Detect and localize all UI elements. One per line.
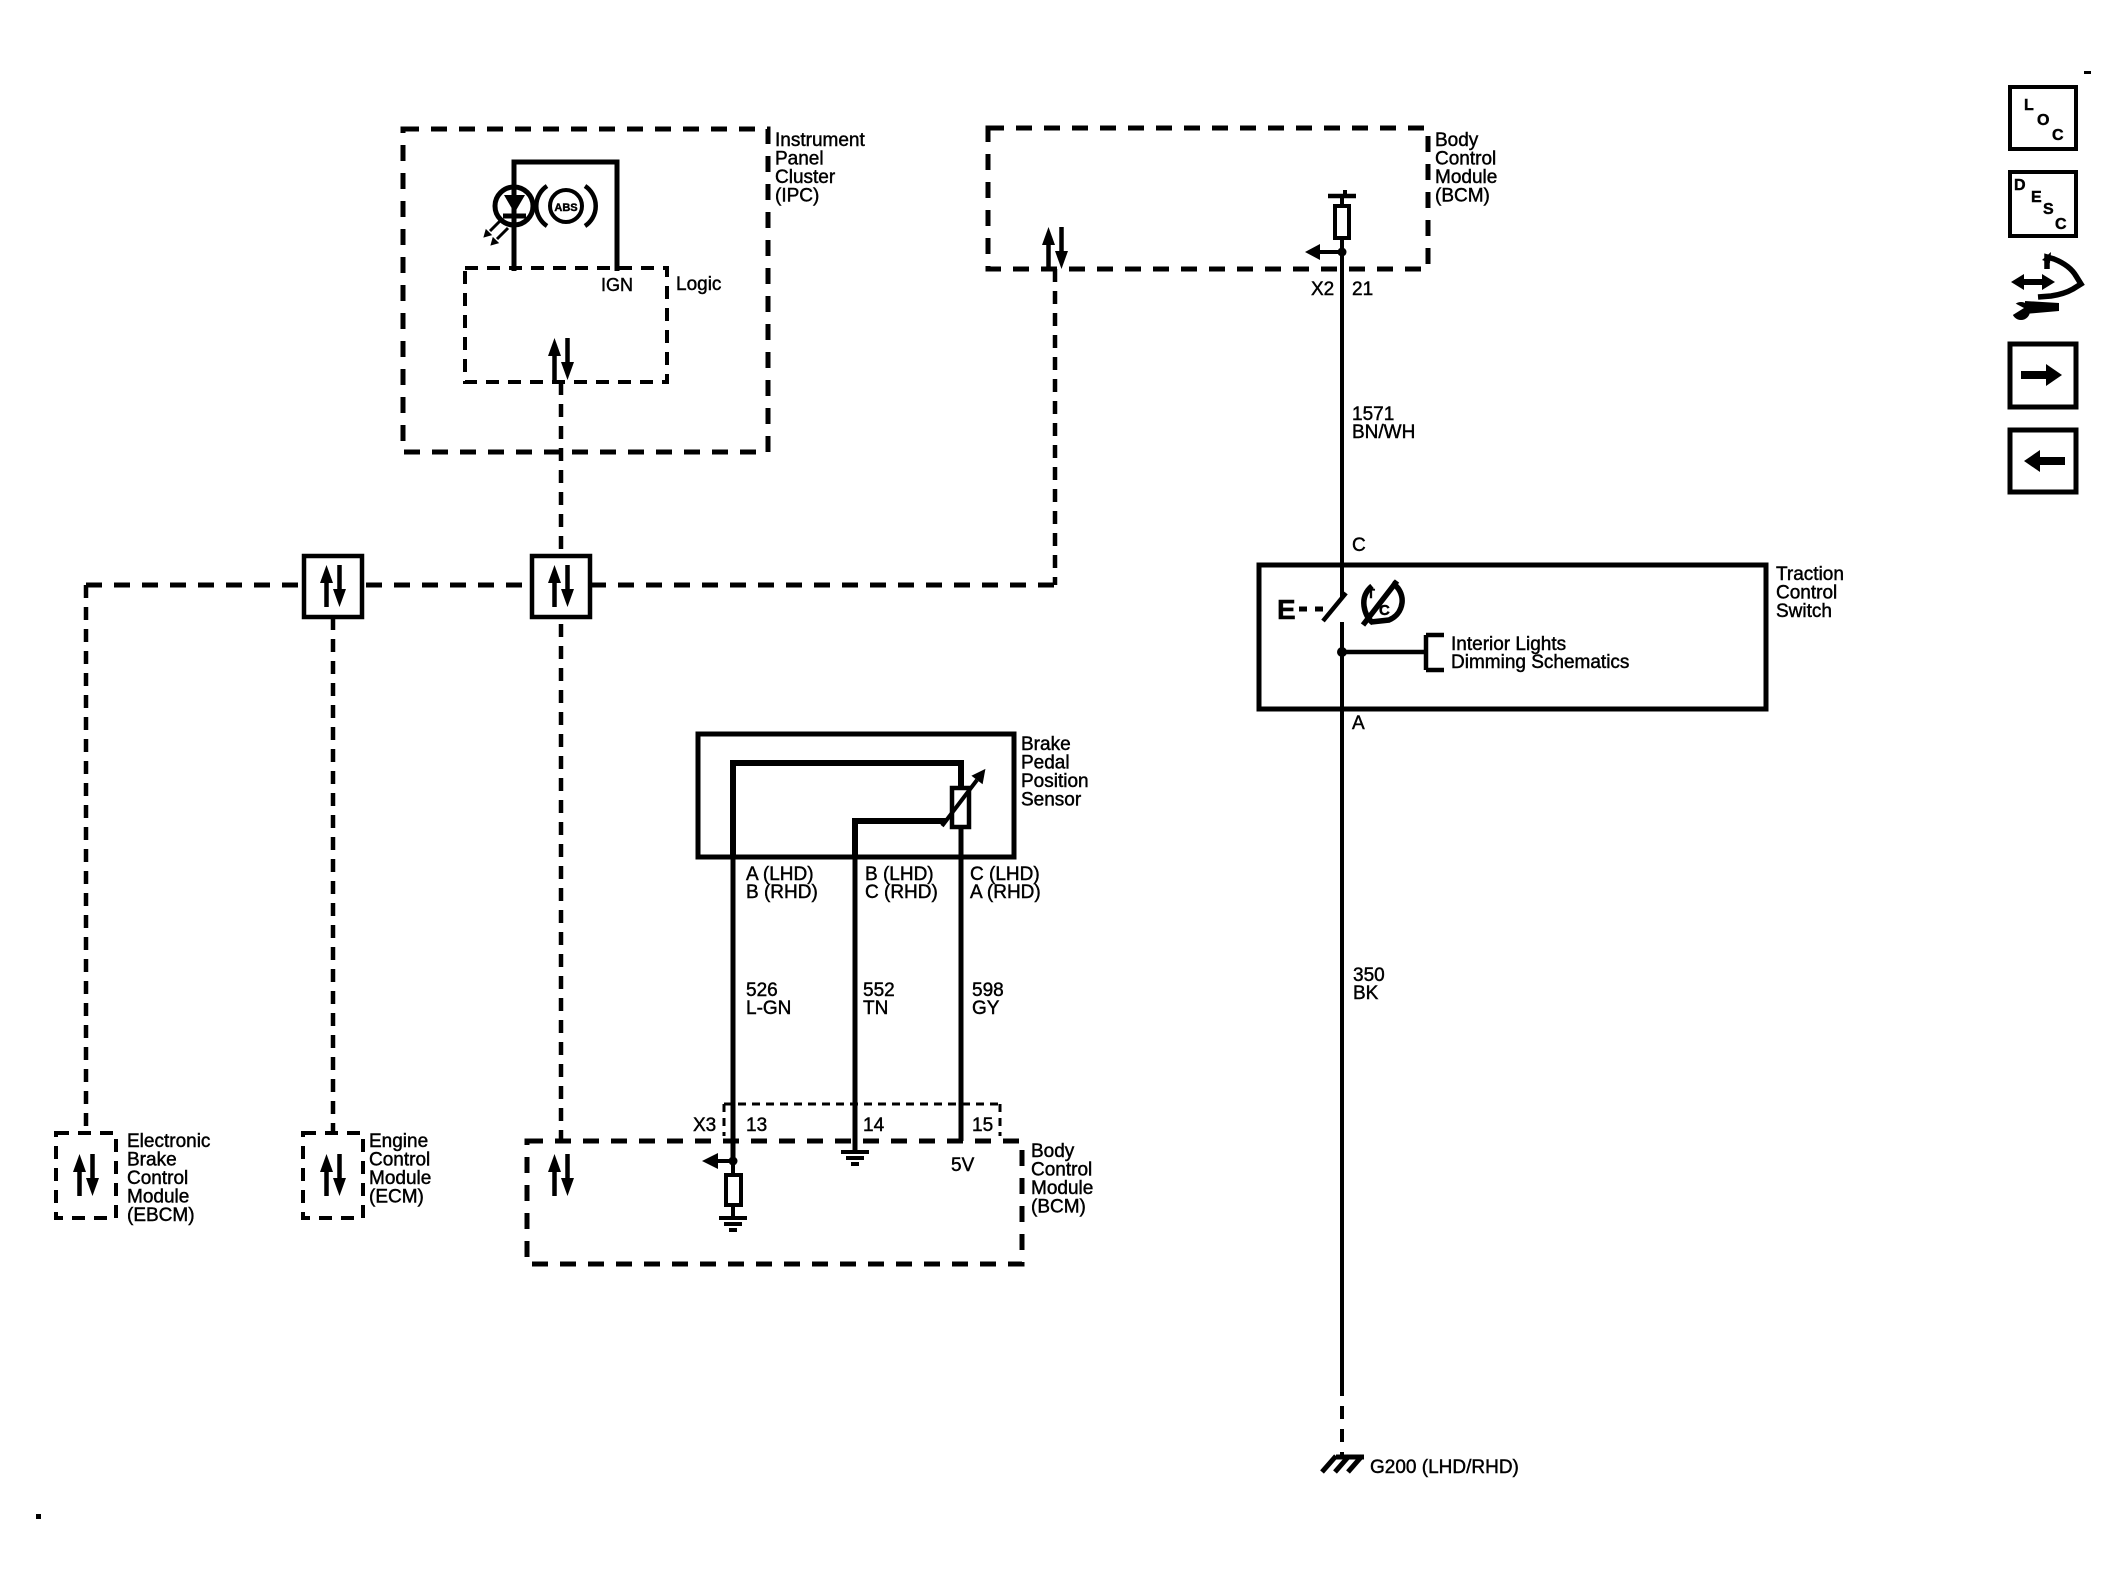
svg-text:C: C: [2055, 216, 2067, 233]
svg-text:X2: X2: [1311, 279, 1334, 300]
svg-text:(EBCM): (EBCM): [127, 1205, 195, 1226]
svg-text:G200 (LHD/RHD): G200 (LHD/RHD): [1370, 1457, 1519, 1478]
svg-text:X3: X3: [693, 1115, 716, 1136]
svg-text:B (RHD): B (RHD): [746, 882, 818, 903]
svg-text:Dimming Schematics: Dimming Schematics: [1451, 652, 1629, 673]
svg-text:C (RHD): C (RHD): [865, 882, 938, 903]
svg-text:BK: BK: [1353, 983, 1379, 1004]
svg-text:T: T: [1367, 586, 1375, 601]
svg-text:(BCM): (BCM): [1031, 1197, 1086, 1218]
svg-text:13: 13: [746, 1115, 767, 1136]
svg-text:GY: GY: [972, 998, 1000, 1019]
svg-text:Sensor: Sensor: [1021, 790, 1082, 811]
svg-text:15: 15: [972, 1115, 993, 1136]
svg-text:(IPC): (IPC): [775, 186, 819, 207]
svg-text:5V: 5V: [951, 1155, 975, 1176]
svg-text:(BCM): (BCM): [1435, 186, 1490, 207]
svg-text:(ECM): (ECM): [369, 1187, 424, 1208]
svg-text:21: 21: [1352, 279, 1373, 300]
svg-text:L-GN: L-GN: [746, 998, 791, 1019]
svg-text:A: A: [1352, 713, 1365, 734]
svg-text:C: C: [1352, 535, 1366, 556]
svg-text:14: 14: [863, 1115, 885, 1136]
svg-text:BN/WH: BN/WH: [1352, 422, 1415, 443]
svg-text:O: O: [2037, 112, 2049, 129]
svg-text:Switch: Switch: [1776, 601, 1832, 622]
svg-text:E: E: [1277, 594, 1296, 625]
svg-text:C: C: [2052, 127, 2064, 144]
svg-text:TN: TN: [863, 998, 888, 1019]
svg-text:S: S: [2043, 201, 2054, 218]
svg-text:E: E: [2031, 189, 2042, 206]
svg-text:IGN: IGN: [601, 275, 633, 295]
svg-text:D: D: [2014, 177, 2026, 194]
svg-text:ABS: ABS: [554, 202, 577, 214]
svg-text:L: L: [2024, 97, 2034, 114]
svg-text:Logic: Logic: [676, 274, 721, 295]
svg-text:A (RHD): A (RHD): [970, 882, 1041, 903]
